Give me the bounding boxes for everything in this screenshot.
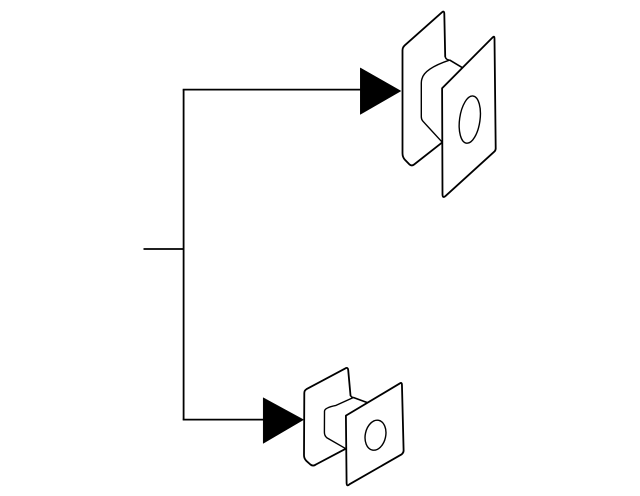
part 1 (top grommet retainer): back plate	[403, 12, 446, 166]
arrow to top part	[360, 68, 401, 115]
part 1: front plate	[442, 37, 496, 197]
arrow to bottom part	[263, 398, 303, 444]
part 1: bridge edge	[450, 60, 463, 68]
part 2: hole ellipse	[362, 418, 388, 452]
part 1: body corner curl	[445, 57, 450, 61]
part 2 (bottom grommet retainer): back plate	[304, 368, 351, 466]
part 2: bridge edge	[353, 398, 367, 403]
part 2: front plate	[346, 383, 404, 485]
wire: leader tick	[144, 248, 184, 250]
wire: bottom horizontal leader	[183, 419, 265, 421]
wire: vertical leader line	[183, 90, 185, 420]
part 2: body corner curl	[351, 395, 354, 397]
wire: top horizontal leader	[183, 89, 362, 91]
part 1: hole ellipse	[456, 95, 483, 145]
part 1: grommet body outline	[421, 60, 449, 142]
part 2: grommet body outline	[324, 398, 353, 449]
